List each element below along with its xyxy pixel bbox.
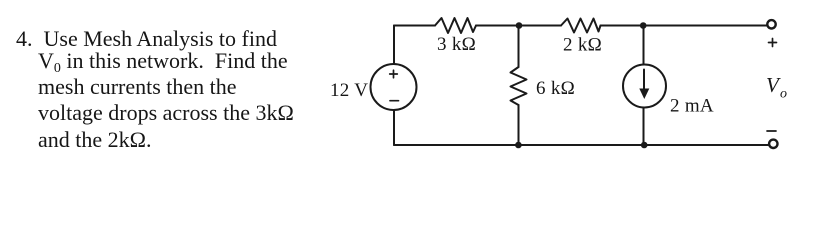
svg-text:12 V: 12 V bbox=[330, 80, 368, 101]
svg-text:V: V bbox=[766, 73, 781, 97]
svg-text:3 kΩ: 3 kΩ bbox=[437, 34, 476, 55]
svg-text:2 mA: 2 mA bbox=[670, 96, 714, 117]
svg-text:6 kΩ: 6 kΩ bbox=[536, 78, 575, 99]
svg-text:2 kΩ: 2 kΩ bbox=[563, 35, 602, 56]
svg-text:o: o bbox=[780, 87, 787, 102]
